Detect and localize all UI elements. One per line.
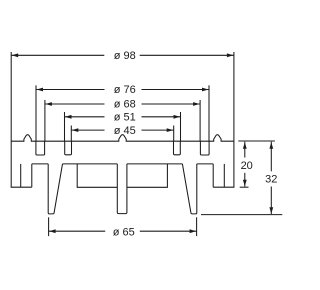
part outline: outer groove slot left (ø76/ø68) [36,141,45,155]
extension line top reference (surface level, right side) [238,140,275,142]
part outline: left foot bottom [11,186,32,188]
part outline: left foot inner ribs [20,164,22,187]
svg-text:20: 20 [241,160,253,172]
part outline: central leg [117,164,127,214]
part outline: right leg (sectioned spoke) [182,164,196,214]
svg-text:ø 68: ø 68 [114,99,136,111]
extension line ø76 right [208,85,210,141]
part outline: left hanging rib block [77,164,117,187]
extension line ø51 left [64,112,66,141]
dimension ø65: line, arrows, label [49,230,106,232]
part outline: right foot bottom [213,186,234,188]
part outline: inner groove slot right [174,141,181,155]
dimension 20: line, arrows, label [244,142,246,158]
extension line ø65 left [48,217,50,236]
svg-text:ø 98: ø 98 [114,50,136,62]
dimension ø68: line, arrows, label [45,103,105,105]
part outline: right hanging rib block [127,164,167,187]
dimension 32: line, arrows, label [270,142,272,172]
dimension ø45: line, arrows, label [71,129,104,131]
part outline: inner groove slot left (ø51/ø45) [65,141,72,155]
svg-text:ø 76: ø 76 [114,84,136,96]
part outline: plate underside segments [32,163,48,165]
part outline: right foot inner ribs [223,164,225,187]
extension line leg-bottom reference (32) [201,214,282,216]
extension line ø45 right [173,126,175,142]
part outline: left outer wall / ø98 left extension line [10,52,12,187]
extension line rib-bottom reference (20) [240,186,249,188]
extension line ø68 left [44,100,46,141]
part outline: right outer wall / ø98 right extension line [233,52,235,187]
extension line ø68 right [199,100,201,141]
svg-text:ø 65: ø 65 [113,227,135,239]
extension line ø65 right [196,217,198,236]
dimension ø76: line, arrows, label [36,89,105,91]
extension line ø45 left [70,126,72,142]
svg-text:ø 45: ø 45 [114,125,136,137]
svg-text:32: 32 [265,174,277,186]
part outline: top surface with detent bumps [11,135,234,142]
part outline: left leg (sectioned spoke) [48,164,62,214]
part outline: outer groove slot right [200,141,209,155]
dimension ø98: line, arrows, label [11,54,104,56]
extension line ø76 left [35,85,37,141]
svg-text:ø 51: ø 51 [114,112,136,124]
extension line ø51 right [180,112,182,141]
dimension ø51: line, arrows, label [65,116,105,118]
